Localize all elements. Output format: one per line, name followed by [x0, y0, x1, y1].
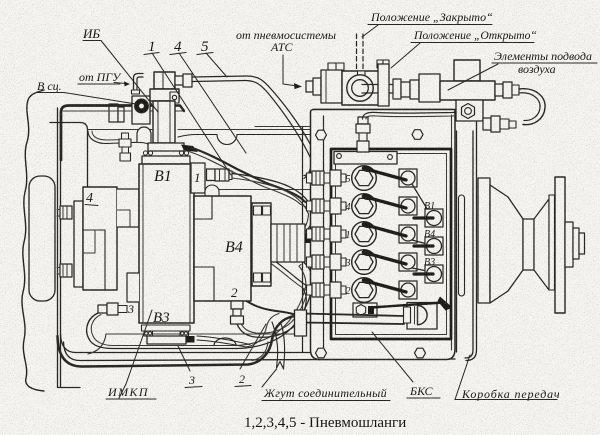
svg-text:4: 4 — [86, 191, 93, 206]
big disc — [555, 177, 565, 313]
svg-text:В сц.: В сц. — [37, 79, 62, 93]
IMKP block under B3 — [142, 325, 191, 331]
B4 flange — [252, 203, 271, 286]
ATS input fitting — [306, 81, 313, 92]
svg-text:5: 5 — [346, 174, 351, 185]
output flange band — [478, 178, 490, 303]
svg-text:3: 3 — [127, 302, 134, 316]
B4 cylinder — [271, 224, 305, 262]
neck — [523, 219, 534, 270]
BKS row 4 — [307, 193, 418, 218]
hose distributor to panel fitting (pair) — [363, 112, 462, 119]
cover bolt — [412, 130, 423, 140]
block B4 — [194, 196, 251, 301]
svg-text:B4: B4 — [225, 239, 243, 256]
IB valve bracket — [132, 96, 150, 124]
dark elbow at B1 base — [181, 145, 198, 153]
col3 circles B1 B4 B3 — [412, 184, 429, 212]
plate bolt upper — [60, 206, 72, 219]
hose-1 fitting right of B1 — [207, 169, 216, 181]
IB valve body — [150, 89, 179, 101]
svg-text:4: 4 — [346, 202, 351, 213]
svg-text:АТС: АТС — [270, 40, 294, 54]
hose-3 fitting left of B3 — [98, 305, 107, 313]
svg-text:ИБ: ИБ — [82, 26, 100, 41]
svg-text:3: 3 — [188, 373, 195, 387]
B4 shaft tip — [305, 233, 318, 244]
cable hump on bottom lines — [214, 338, 236, 345]
thin hose rising into tube — [246, 314, 279, 348]
housing horizontal lines right of valve — [88, 129, 312, 131]
hose-2 fitting below B4 — [231, 301, 243, 309]
harness thick bottom run — [58, 316, 300, 367]
break line (torn paper edge, left) — [22, 90, 44, 391]
hose 2 (pair) — [237, 290, 306, 338]
block B1/B3 column — [139, 164, 194, 323]
clutch fitting (dark hex) — [135, 99, 148, 114]
block 4 mounting plate — [74, 201, 83, 287]
fitting on panel top — [358, 117, 368, 124]
lower fitting — [483, 118, 491, 130]
svg-text:Элементы подвода: Элементы подвода — [494, 49, 592, 63]
harness inner line — [252, 342, 268, 361]
hose from IMKP block — [197, 336, 250, 347]
svg-text:ИМКП: ИМКП — [107, 385, 149, 399]
black arrow flag — [371, 303, 443, 308]
distributor left block — [321, 70, 342, 103]
distributor main body — [342, 71, 386, 105]
thin flange — [549, 195, 555, 290]
ledge left of B3 — [127, 273, 139, 302]
wall gasket strips — [459, 195, 465, 296]
diamond fitting with hex — [456, 100, 483, 121]
ring connector — [407, 303, 437, 330]
cover bolt — [316, 130, 327, 140]
air hose loop — [519, 89, 545, 125]
svg-text:1: 1 — [194, 170, 201, 185]
svg-text:1: 1 — [346, 230, 351, 241]
svg-text:Коробка передач: Коробка передач — [461, 387, 560, 401]
cross fitting block — [419, 74, 440, 102]
hose to clutch cylinder (thick) — [61, 106, 137, 161]
IB valve top cap — [154, 72, 175, 89]
svg-text:Жгут соединительный: Жгут соединительный — [263, 386, 387, 400]
right fitting upper — [495, 84, 503, 96]
BKS row 2 — [307, 277, 418, 302]
hose 4 (pair) — [191, 148, 308, 204]
bolt on housing top edge — [109, 104, 118, 122]
harness tube — [303, 314, 404, 325]
IB valve cylinder — [153, 101, 175, 143]
svg-text:2: 2 — [239, 372, 245, 386]
cover bolt — [316, 348, 327, 358]
bracket arch below — [137, 127, 151, 142]
svg-text:В3: В3 — [424, 257, 435, 268]
clutch housing slot (rounded) — [29, 176, 55, 301]
air supply top block — [454, 60, 480, 81]
bleeder fitting above block 4 — [122, 133, 129, 139]
eye ring — [347, 75, 373, 101]
arch boss at B4 top-left — [205, 185, 219, 196]
BKS cover plate — [311, 110, 456, 360]
svg-text:воздуха: воздуха — [518, 62, 556, 76]
hose 1 (pair) — [232, 174, 314, 233]
svg-text:2: 2 — [231, 285, 238, 300]
housing bottom edges — [61, 334, 453, 353]
plate bolt lower — [60, 264, 72, 277]
thick harness drop from B4 fitting — [240, 296, 293, 314]
bolts atop — [328, 63, 344, 70]
cover bolt — [415, 348, 426, 358]
housing left edge — [58, 108, 61, 387]
dashed position lines — [356, 34, 358, 72]
hose into row 2 from above — [262, 252, 312, 289]
svg-text:3: 3 — [345, 258, 351, 269]
svg-text:Положение „Открыто“: Положение „Открыто“ — [413, 29, 537, 42]
hose 3 loop left — [87, 313, 236, 349]
hose 5 (pair) — [192, 76, 317, 176]
top rail — [334, 152, 397, 165]
gearbox rear wall — [453, 110, 457, 352]
hose 3 (pair) — [236, 263, 313, 349]
BKS row 1 — [307, 221, 418, 246]
svg-text:B1: B1 — [154, 168, 172, 185]
IB valve base flanges — [148, 143, 184, 151]
BKS row 3 — [307, 249, 418, 274]
svg-text:2: 2 — [346, 286, 351, 297]
svg-text:В4: В4 — [424, 229, 435, 240]
block 4 body — [83, 187, 117, 290]
BKS row 5 — [307, 165, 418, 190]
shaft — [362, 85, 424, 94]
svg-text:БКС: БКС — [409, 384, 433, 398]
cover inner border line — [323, 116, 325, 348]
BKS inner frame — [331, 149, 451, 339]
svg-text:от ПГУ: от ПГУ — [79, 70, 122, 84]
IB valve right fitting — [175, 76, 183, 85]
boss contour under valve — [88, 131, 150, 145]
PGU elbow pipe — [134, 74, 144, 93]
housing front face edge — [302, 127, 304, 353]
tube collar — [295, 310, 307, 336]
air supply main block — [440, 81, 495, 100]
cone 2 — [534, 199, 549, 290]
small hex fitting bottom of panel — [353, 303, 377, 317]
svg-text:1,2,3,4,5 - Пневмошланги: 1,2,3,4,5 - Пневмошланги — [244, 415, 406, 431]
svg-text:Положение „Закрыто“: Положение „Закрыто“ — [370, 10, 493, 24]
plate 1 at B1 top right — [191, 163, 205, 193]
housing top-left contour — [50, 123, 88, 188]
shaft steps — [565, 222, 573, 267]
svg-text:B3: B3 — [153, 310, 170, 326]
output bell — [490, 185, 523, 303]
svg-text:В1: В1 — [424, 201, 435, 212]
